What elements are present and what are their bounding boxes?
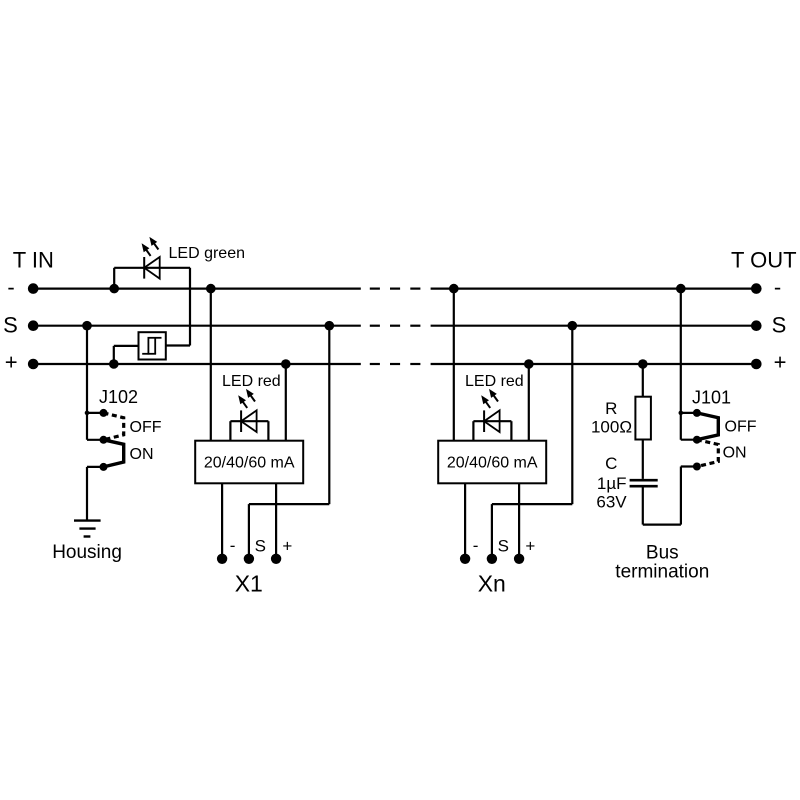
svg-text:-: -: [230, 536, 236, 555]
svg-text:LED red: LED red: [465, 373, 524, 390]
svg-text:R: R: [605, 399, 617, 418]
svg-text:Xn: Xn: [478, 571, 506, 597]
svg-text:20/40/60 mA: 20/40/60 mA: [204, 454, 295, 471]
svg-text:X1: X1: [235, 571, 263, 597]
svg-text:+: +: [774, 350, 787, 375]
svg-text:20/40/60 mA: 20/40/60 mA: [447, 454, 538, 471]
svg-text:+: +: [525, 537, 535, 556]
svg-text:J102: J102: [99, 387, 138, 407]
svg-text:T OUT: T OUT: [731, 247, 797, 272]
svg-text:ON: ON: [130, 446, 154, 463]
svg-text:T IN: T IN: [13, 247, 54, 272]
svg-text:-: -: [7, 275, 14, 300]
svg-text:-: -: [774, 275, 781, 300]
svg-text:+: +: [282, 537, 292, 556]
svg-text:100Ω: 100Ω: [591, 418, 632, 437]
svg-text:+: +: [5, 350, 18, 375]
svg-text:OFF: OFF: [130, 419, 162, 436]
svg-text:ON: ON: [723, 445, 747, 462]
svg-text:S: S: [3, 313, 18, 338]
svg-text:J101: J101: [692, 388, 731, 408]
svg-text:LED green: LED green: [169, 245, 246, 262]
svg-text:termination: termination: [615, 561, 709, 582]
svg-text:S: S: [498, 536, 509, 555]
svg-text:OFF: OFF: [725, 418, 757, 435]
svg-text:S: S: [255, 536, 266, 555]
svg-text:C: C: [605, 454, 617, 473]
svg-text:S: S: [772, 313, 787, 338]
svg-text:1µF: 1µF: [597, 474, 627, 493]
svg-text:Housing: Housing: [52, 542, 122, 563]
svg-text:63V: 63V: [596, 493, 627, 512]
svg-text:-: -: [473, 536, 479, 555]
svg-text:LED red: LED red: [222, 373, 281, 390]
